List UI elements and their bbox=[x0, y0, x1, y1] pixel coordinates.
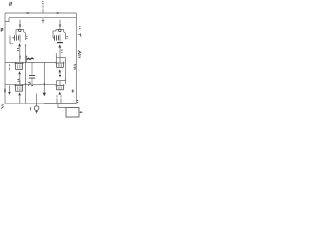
label 28 right mid-lower bbox=[74, 65, 77, 70]
wire M1 source down to H3 bbox=[19, 46, 21, 62]
wire right secondary vertical bbox=[65, 58, 67, 81]
wire node B vertical (right secondary upper) bbox=[65, 33, 67, 40]
transistor M2 source arrow bbox=[18, 71, 21, 74]
transistor M4 source plate bbox=[57, 42, 63, 44]
label P (left edge) bbox=[1, 28, 3, 31]
transistor Q2 top bar bbox=[56, 28, 64, 30]
transistor M6 source arrow bbox=[58, 92, 61, 95]
label 24 left of I1 bbox=[30, 107, 32, 110]
transistor M6 body box bbox=[56, 84, 65, 90]
node stub above H3 (left secondary) bbox=[26, 56, 28, 62]
arrow on top rail (left) bbox=[26, 12, 28, 14]
transistor Q1 emitter circle bbox=[19, 29, 22, 32]
wire from bottom rail into output box bbox=[58, 104, 66, 108]
transistor M5 source arrow bbox=[58, 69, 61, 72]
wire M2 source down to H4 bbox=[19, 74, 21, 84]
current source I1 lower stub bbox=[35, 110, 37, 113]
label 16 beside wire bbox=[17, 48, 19, 50]
transistor M1 channel bbox=[19, 34, 21, 42]
label 20 above H4 bbox=[17, 79, 19, 81]
transistor M2 body box bbox=[15, 62, 24, 69]
label 36 above output box bbox=[77, 100, 78, 103]
label 30 right mid bbox=[78, 51, 81, 58]
label 34 cross on right rail bbox=[72, 89, 75, 92]
transistor M5 body box bbox=[56, 62, 65, 68]
transistor Q1 right leg to node A bbox=[24, 29, 26, 33]
label 6 right rail upper bbox=[79, 26, 80, 28]
junction dot node C bbox=[25, 83, 27, 85]
wire H3 right corner rising bbox=[55, 53, 57, 62]
wire Y80 link (right) bbox=[56, 80, 65, 82]
pointer arrowhead on x=44 wire bbox=[43, 93, 46, 97]
current source I1 circle bbox=[34, 106, 39, 111]
wire top rail VDD bbox=[5, 12, 76, 14]
transistor M4 source arrow bbox=[58, 44, 61, 47]
tick on Y80 right bbox=[65, 79, 67, 84]
transistor M4 channel bbox=[59, 34, 61, 41]
transistor M2 gate lead bbox=[9, 64, 11, 70]
label 18 squiggle above H3 bbox=[26, 58, 33, 60]
transistor Q1 drain stub bbox=[19, 20, 21, 28]
wire Y57 link (right) bbox=[56, 57, 65, 59]
transistor M4 gate bars bbox=[53, 35, 59, 40]
transistor Q1 top bar bbox=[16, 28, 24, 30]
output arrow bbox=[79, 111, 81, 113]
label 10 (figure reference, top-left) bbox=[9, 2, 11, 6]
transistor M1 gate bars bbox=[12, 35, 18, 40]
arrow on top rail (right) bbox=[56, 12, 58, 14]
transistor M6 top stub bbox=[59, 81, 61, 86]
transistor Q2 left leg diode jog bbox=[53, 29, 56, 37]
transistor M3 source arrow bbox=[18, 92, 21, 95]
wire H4 mid-lower rail bbox=[5, 81, 57, 85]
wire node A vertical (left secondary) bbox=[25, 33, 27, 40]
wire H3 mid rail bbox=[5, 61, 56, 63]
transistor M5 top stub bbox=[59, 58, 61, 64]
wire left rail bbox=[4, 13, 6, 104]
terminal stub above top rail at node V1 bbox=[42, 9, 44, 13]
wire left secondary vertical to bottom rail bbox=[25, 46, 27, 104]
transistor M3 gate pointer bbox=[9, 85, 11, 91]
label 1 beside wire bbox=[61, 50, 63, 53]
wire second-rail drop to left rail bbox=[5, 18, 9, 22]
capacitor C1 marks (left of center) bbox=[29, 76, 35, 79]
junction dot at x44/H4 bbox=[43, 83, 45, 85]
junction blob on left rail bbox=[4, 89, 6, 93]
label 8 right rail bbox=[78, 33, 81, 36]
wire right rail bbox=[75, 13, 77, 104]
wire M4 source down bbox=[59, 48, 61, 58]
wire bottom rail bbox=[5, 103, 44, 105]
label 32 bottom-left bbox=[1, 105, 3, 109]
output box U1 bbox=[66, 108, 79, 117]
label 4 right of M4 bbox=[66, 36, 67, 38]
transistor M1 gate lead from left bbox=[10, 36, 13, 44]
node dot Q1 drain bbox=[19, 24, 21, 26]
wire M5 source blob bbox=[59, 72, 61, 77]
transistor M1 source arrow bbox=[18, 43, 21, 46]
transistor Q2 drain stub (right) bbox=[59, 20, 61, 28]
transistor Q1 left leg bbox=[15, 29, 17, 35]
wire M3 source to bottom rail bbox=[19, 95, 21, 103]
transistor Q2 right leg to node B bbox=[64, 29, 66, 33]
wire second rail bbox=[9, 17, 76, 19]
label 22 below capacitor bbox=[28, 82, 33, 86]
label t mark bbox=[19, 56, 21, 58]
terminal cross below second rail at node V1 bbox=[42, 18, 45, 23]
wire M6 source leads to bottom rail bbox=[57, 98, 61, 103]
transistor M3 top stub bbox=[19, 80, 21, 85]
current source I1 wire bbox=[36, 94, 38, 106]
label 14 near node A bbox=[26, 36, 27, 38]
transistor Q2 emitter circle bbox=[59, 29, 62, 32]
node dot Q2 drain bbox=[59, 24, 61, 26]
transistor M3 body box bbox=[15, 84, 24, 91]
wire T junction drop from H3 at x=44 bbox=[43, 62, 45, 92]
